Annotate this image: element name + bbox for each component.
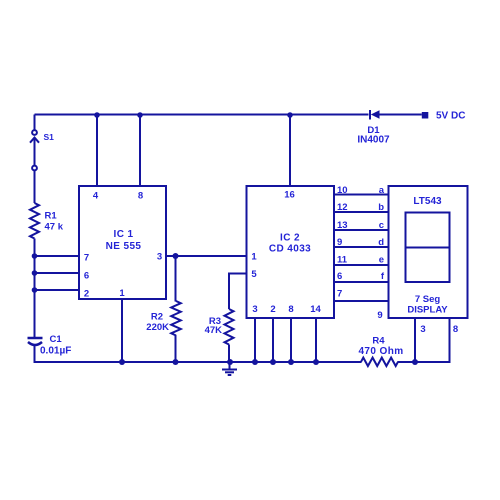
svg-text:2: 2 — [270, 304, 275, 315]
label CD 4033 — [269, 244, 311, 255]
label 7 Seg — [415, 294, 441, 305]
svg-text:CD 4033: CD 4033 — [269, 244, 311, 255]
svg-text:LT543: LT543 — [413, 196, 442, 207]
resistor R4 — [361, 358, 398, 366]
display U3 LT543 box — [389, 186, 468, 318]
label R4 — [372, 336, 385, 347]
svg-text:1: 1 — [119, 288, 125, 299]
wire segment ladder rung f — [334, 281, 388, 283]
node f — [381, 271, 385, 282]
svg-text:3: 3 — [157, 252, 162, 263]
wire IC2 pin 16 riser — [289, 115, 291, 187]
diode D1 — [370, 110, 380, 120]
label R3 — [209, 316, 221, 327]
svg-text:8: 8 — [453, 324, 458, 335]
pin 4 label — [93, 191, 99, 202]
node junction IC2 pin8 on bus — [288, 359, 294, 365]
svg-text:47K: 47K — [205, 325, 223, 336]
label 5V DC — [436, 111, 465, 122]
svg-text:IC 2: IC 2 — [280, 232, 300, 243]
svg-text:470 Ohm: 470 Ohm — [358, 346, 403, 357]
svg-text:1: 1 — [251, 252, 257, 263]
pin 11 label — [337, 255, 348, 266]
node junction pin4 riser on top bus — [94, 112, 100, 118]
display segment figure — [406, 213, 450, 283]
svg-text:7: 7 — [84, 253, 89, 264]
pin 3 label display — [420, 324, 425, 335]
svg-text:5V DC: 5V DC — [436, 111, 465, 122]
node junction pin16 riser on top bus — [287, 112, 293, 118]
wire bottom ground bus left — [35, 361, 362, 363]
node junction pin8 riser on top bus — [137, 112, 143, 118]
svg-text:b: b — [378, 202, 384, 213]
pin 6 label ladder — [337, 271, 342, 282]
pin 14 label IC2 — [310, 304, 321, 315]
svg-text:DISPLAY: DISPLAY — [407, 305, 448, 316]
wire IC1 pin 8 riser — [139, 115, 141, 187]
pin 5 label IC2 — [251, 269, 257, 280]
wire to pin 2 — [35, 289, 80, 291]
node b — [378, 202, 384, 213]
label 47 k — [45, 222, 64, 233]
pin 1 label — [119, 288, 125, 299]
svg-text:8: 8 — [288, 304, 293, 315]
pin 9 label display — [377, 310, 382, 321]
svg-text:11: 11 — [337, 255, 348, 266]
wire IC2 pin 3 drop — [254, 318, 256, 362]
svg-text:C1: C1 — [50, 334, 63, 345]
pin 7 label — [84, 253, 89, 264]
svg-text:3: 3 — [252, 304, 257, 315]
wire C1 to ground bus — [34, 345, 36, 364]
terminal 5V DC — [422, 112, 429, 119]
label 0.01uF — [40, 346, 71, 357]
label DISPLAY — [407, 305, 448, 316]
resistor R3 — [225, 309, 234, 345]
svg-text:9: 9 — [377, 310, 382, 321]
label IC 2 — [280, 232, 300, 243]
label NE 555 — [106, 241, 142, 252]
svg-text:16: 16 — [284, 190, 295, 201]
node junction pin6 — [32, 270, 38, 276]
wire display pin 3 drop — [414, 318, 416, 362]
label 220K — [146, 322, 169, 333]
node junction R2 top — [173, 253, 179, 259]
svg-text:220K: 220K — [146, 322, 169, 333]
node a — [379, 185, 385, 196]
pin 8 label IC2 — [288, 304, 293, 315]
wire IC2 pin 2 drop — [272, 318, 274, 362]
pin 13 label — [337, 220, 348, 231]
wire R3 bottom lead — [228, 345, 230, 363]
wire diode to terminal — [379, 114, 422, 116]
wire segment ladder rung c — [334, 229, 388, 231]
svg-text:4: 4 — [93, 191, 99, 202]
wire left rail top — [34, 115, 36, 131]
pin 1 label IC2 — [251, 252, 257, 263]
wire IC2 pin 5 to R3 — [229, 274, 246, 310]
node junction display pin3 on bus — [412, 359, 418, 365]
svg-text:7 Seg: 7 Seg — [415, 294, 441, 305]
svg-text:d: d — [378, 237, 384, 248]
pin 7 label ladder — [337, 289, 342, 300]
svg-text:R1: R1 — [45, 211, 58, 222]
svg-text:S1: S1 — [44, 132, 55, 142]
node c — [379, 220, 384, 231]
svg-text:e: e — [379, 255, 384, 266]
pin 2 label — [84, 289, 89, 300]
ground — [222, 362, 237, 375]
wire segment ladder rung g — [334, 300, 388, 302]
label R2 — [151, 312, 163, 323]
node junction pin2 — [32, 287, 38, 293]
pin 10 label — [337, 185, 348, 196]
label S1 — [44, 132, 55, 142]
capacitor C1 — [28, 338, 43, 345]
svg-text:3: 3 — [420, 324, 425, 335]
label 470 Ohm — [358, 346, 403, 357]
svg-text:R4: R4 — [372, 336, 385, 347]
svg-text:2: 2 — [84, 289, 89, 300]
pin 6 label — [84, 271, 89, 282]
node junction R2 on bus — [173, 359, 179, 365]
pin 16 label — [284, 190, 295, 201]
svg-text:10: 10 — [337, 185, 348, 196]
svg-text:NE 555: NE 555 — [106, 241, 142, 252]
switch S1 — [30, 130, 39, 170]
pin 12 label — [337, 202, 348, 213]
resistor R1 — [30, 203, 39, 239]
label R1 — [45, 211, 58, 222]
resistor R2 — [171, 301, 181, 336]
label LT543 — [413, 196, 442, 207]
svg-text:a: a — [379, 185, 385, 196]
op-amp U2 IC2 CD4033 box — [247, 186, 335, 318]
wire segment ladder rung b — [334, 211, 388, 213]
label C1 — [50, 334, 63, 345]
pin 8 label — [138, 191, 143, 202]
node d — [378, 237, 384, 248]
label IN4007 — [357, 135, 390, 146]
node junction pin7 — [32, 253, 38, 259]
wire R1 to C1 (left rail) — [34, 239, 36, 339]
svg-text:9: 9 — [337, 237, 342, 248]
svg-text:0.01µF: 0.01µF — [40, 346, 71, 357]
label IC 1 — [114, 229, 134, 240]
svg-text:6: 6 — [337, 271, 342, 282]
wire segment ladder rung e — [334, 264, 388, 266]
wire IC2 pin 14 drop — [315, 318, 317, 362]
wire to pin 7 — [35, 255, 80, 257]
wire display pin 8 drop — [449, 318, 451, 363]
pin 9 label — [337, 237, 342, 248]
label D1 — [367, 125, 380, 136]
svg-text:8: 8 — [138, 191, 143, 202]
wire segment ladder rung a — [334, 194, 388, 196]
node junction IC2 pin2 on bus — [270, 359, 276, 365]
wire top supply bus — [35, 114, 369, 116]
node junction R3/ground on bus — [227, 359, 233, 365]
node junction IC1 pin1 on bus — [119, 359, 125, 365]
pin 3 label IC2 — [252, 304, 257, 315]
wire IC1 pin 3 to IC2 pin 1 — [166, 255, 246, 257]
wire R2 top lead — [175, 256, 177, 302]
wire segment ladder rung d — [334, 246, 388, 248]
wire IC1 pin 1 drop — [121, 299, 123, 362]
svg-text:R2: R2 — [151, 312, 163, 323]
pin 8 label display — [453, 324, 458, 335]
svg-text:7: 7 — [337, 289, 342, 300]
op-amp U1 IC1 NE555 box — [79, 186, 166, 299]
svg-text:c: c — [379, 220, 384, 231]
svg-text:5: 5 — [251, 269, 257, 280]
wire S1 to R1 — [34, 170, 36, 203]
svg-text:47 k: 47 k — [45, 222, 64, 233]
svg-text:12: 12 — [337, 202, 348, 213]
node junction IC2 pin3 on bus — [252, 359, 258, 365]
wire bottom bus right — [398, 361, 450, 363]
svg-text:6: 6 — [84, 271, 89, 282]
svg-text:13: 13 — [337, 220, 348, 231]
wire to pin 6 — [35, 272, 80, 274]
wire IC1 pin 4 riser — [96, 115, 98, 187]
node e — [379, 255, 384, 266]
label 47K — [205, 325, 223, 336]
svg-text:14: 14 — [310, 304, 321, 315]
wire R2 bottom lead — [175, 335, 177, 362]
node junction IC2 pin14 on bus — [313, 359, 319, 365]
pin 2 label IC2 — [270, 304, 275, 315]
svg-text:IC 1: IC 1 — [114, 229, 134, 240]
wire IC2 pin 8 drop — [290, 318, 292, 362]
svg-text:IN4007: IN4007 — [357, 135, 390, 146]
pin 3 label — [157, 252, 162, 263]
